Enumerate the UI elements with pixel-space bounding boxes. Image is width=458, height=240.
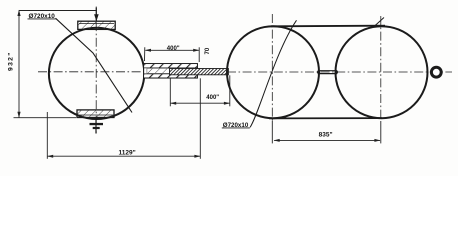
wire vertical centerline pontoon right [380, 16, 382, 121]
dimension 1129 line [47, 155, 200, 158]
top tangent plate [271, 25, 385, 28]
dimension 835 line [274, 139, 381, 142]
svg-text:400": 400" [206, 95, 219, 101]
dimension 400 top left extension [144, 47, 146, 61]
dimension 400 lower left extension [169, 78, 171, 106]
bottom drain fitting [90, 118, 104, 134]
dimension 932 vertical line [17, 10, 20, 118]
dimension 932 top extension [19, 10, 97, 12]
wire vertical centerline left float [95, 7, 97, 134]
svg-text:1129": 1129" [119, 149, 136, 156]
wire horizontal centerline right assembly [227, 71, 452, 73]
towing ring [431, 67, 441, 77]
dimension 400 lower right extension [229, 75, 231, 106]
dimension 400 top right extension [198, 47, 200, 62]
sleeve tube [144, 64, 198, 78]
leader diagonal pontoon [250, 20, 297, 127]
label Ø720x10 left [28, 13, 56, 20]
dimension 1129 left extension [46, 112, 48, 159]
svg-text:400": 400" [167, 46, 180, 52]
rod hidden end [147, 68, 170, 73]
wire horizontal centerline left float [38, 71, 146, 73]
label Ø720x10 right [222, 122, 250, 129]
top nozzle [94, 8, 99, 22]
bottom tangent plate [269, 117, 382, 119]
svg-text:835": 835" [319, 132, 333, 139]
svg-text:932": 932" [8, 51, 15, 71]
dimension 400 top line [145, 49, 199, 52]
top saddle pad [78, 21, 115, 29]
wire vertical centerline pontoon left [271, 14, 273, 121]
left float shell [49, 28, 144, 119]
dimension 400 lower line [170, 102, 230, 105]
bottom saddle pad [77, 110, 114, 118]
tick mark pontoon right top [374, 18, 384, 27]
pontoon connector sleeve [317, 71, 338, 74]
dimension 932 bottom extension [14, 117, 77, 119]
rod [170, 69, 229, 75]
leader diagonal left float [56, 18, 133, 112]
pontoon right shell [336, 26, 428, 118]
dimension 1129 right extension [199, 78, 201, 159]
pontoon left shell [227, 26, 319, 118]
svg-text:70: 70 [205, 47, 211, 54]
